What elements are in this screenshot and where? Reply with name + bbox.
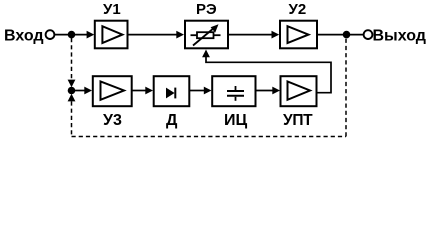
- arrow into RE bottom: [202, 50, 210, 58]
- arrow into D: [145, 87, 153, 95]
- IC capacitor plate top: [227, 90, 244, 92]
- amplifier U1 box: [95, 21, 128, 49]
- feedback wire UPT to RE: [206, 54, 331, 93]
- arrow into U3: [84, 87, 92, 95]
- node input junction: [68, 31, 76, 39]
- node bottom junction: [68, 87, 76, 95]
- svg-text:ИЦ: ИЦ: [224, 112, 248, 129]
- integrating circuit IC box: [212, 76, 255, 106]
- U2 triangle symbol: [288, 26, 309, 43]
- amplifier U3 box: [93, 76, 132, 106]
- RE symbol right lead: [214, 34, 221, 36]
- dashed wire below bottom node: [71, 101, 73, 136]
- wire D to IC: [190, 90, 206, 92]
- svg-text:Д: Д: [166, 112, 178, 129]
- dashed wire input node down: [71, 38, 73, 80]
- wire RE to U2: [228, 34, 273, 36]
- output terminal circle: [364, 30, 373, 39]
- amplifier U2 box: [280, 21, 317, 49]
- U1 triangle symbol: [102, 26, 122, 43]
- arrow up into bottom node: [68, 94, 76, 102]
- svg-text:РЭ: РЭ: [196, 1, 217, 18]
- dashed wire bottom horizontal: [72, 136, 347, 138]
- detector D box: [154, 76, 190, 106]
- wire input to U1: [55, 34, 88, 36]
- UPT triangle symbol: [288, 82, 311, 100]
- wire U1 to RE: [128, 34, 179, 36]
- IC capacitor symbol top lead: [235, 86, 237, 90]
- regulating element RE box: [185, 21, 228, 49]
- svg-text:У2: У2: [289, 1, 307, 18]
- dashed wire right vertical to output node: [345, 38, 347, 137]
- svg-text:У1: У1: [103, 1, 121, 18]
- node output junction: [343, 31, 351, 39]
- IC capacitor symbol bottom lead: [235, 97, 237, 101]
- RE symbol left lead: [191, 34, 198, 36]
- arrow into RE: [176, 31, 184, 39]
- wire U3 to D: [132, 90, 148, 92]
- input terminal circle: [46, 30, 55, 39]
- arrow into U2: [272, 31, 280, 39]
- svg-text:УПТ: УПТ: [283, 112, 313, 129]
- arrow into IC: [204, 87, 212, 95]
- svg-text:У3: У3: [103, 112, 122, 129]
- svg-text:Вход: Вход: [4, 28, 44, 45]
- wire bottom node to U3: [75, 90, 86, 92]
- arrow into U1: [87, 31, 95, 39]
- wire U2 to output: [317, 34, 363, 36]
- arrow into UPT: [272, 87, 280, 95]
- svg-text:Выход: Выход: [373, 28, 426, 45]
- U3 triangle symbol: [101, 82, 125, 100]
- D diode symbol: [166, 88, 175, 99]
- IC capacitor plate bottom: [227, 95, 244, 97]
- RE rheostat symbol rectangle: [197, 32, 214, 38]
- RE symbol diagonal arrow: [193, 28, 215, 46]
- amplifier UPT box: [281, 76, 317, 106]
- arrow down into bottom node: [68, 80, 76, 88]
- wire IC to UPT: [256, 90, 275, 92]
